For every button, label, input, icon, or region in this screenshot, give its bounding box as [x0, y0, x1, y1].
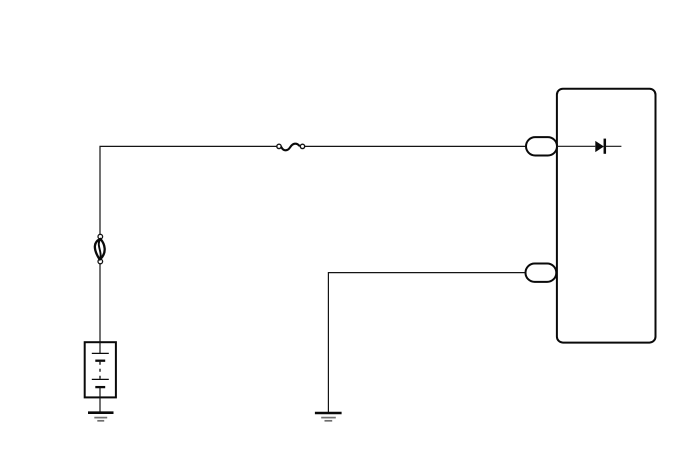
wire battery to ground [99, 397, 101, 412]
battery B1 box [85, 342, 116, 397]
twisted-wire loop [95, 234, 105, 264]
wire twist to fuse [100, 146, 277, 234]
wire pin2 to ground [328, 273, 525, 412]
connector pin 2 (pill) [526, 264, 557, 282]
connector pin 1 (pill) [526, 137, 557, 155]
module U1 (rounded box) [557, 89, 656, 343]
fuse F1 [277, 144, 305, 151]
battery cell plates [92, 342, 109, 397]
diode D1 [595, 139, 621, 154]
ground (battery) [88, 413, 114, 421]
wire fuse to pin1 [305, 145, 527, 147]
ground (signal) [315, 413, 342, 421]
wire pin1 to diode [557, 145, 595, 147]
wire battery to twist [99, 264, 101, 343]
